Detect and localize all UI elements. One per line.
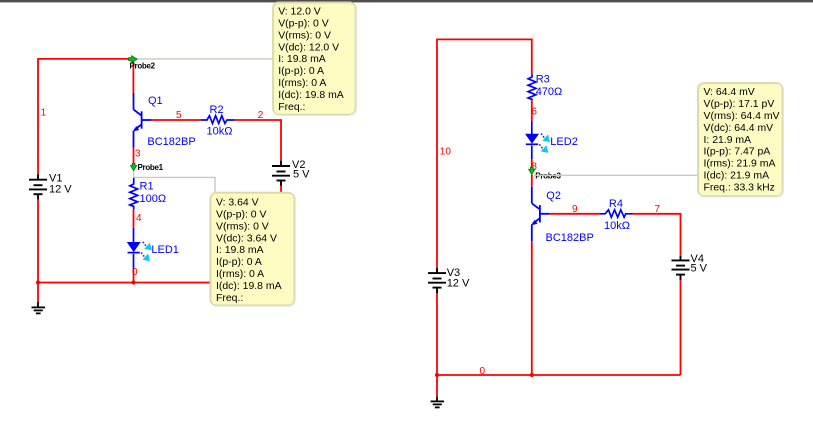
svg-text:12 V: 12 V	[447, 277, 470, 289]
svg-text:V(dc): 3.64 V: V(dc): 3.64 V	[216, 233, 277, 244]
svg-text:V(p-p): 0 V: V(p-p): 0 V	[216, 210, 267, 221]
svg-text:LED2: LED2	[550, 136, 578, 148]
Q1 emitter arrowhead	[133, 126, 139, 132]
svg-text:V: 12.0 V: V: 12.0 V	[278, 7, 321, 18]
LED1 triangle	[128, 242, 140, 251]
svg-text:5 V: 5 V	[293, 168, 310, 180]
svg-text:5: 5	[176, 110, 182, 121]
svg-text:100Ω: 100Ω	[140, 193, 167, 205]
probe Probe3 arrow	[529, 167, 535, 174]
probe Probe2 arrow	[129, 56, 138, 63]
svg-text:I(p-p): 0 A: I(p-p): 0 A	[278, 66, 324, 77]
wire net8 below probe	[531, 175, 533, 187]
svg-text:V(rms): 0 V: V(rms): 0 V	[216, 221, 269, 232]
svg-text:12 V: 12 V	[49, 184, 72, 196]
battery V4	[672, 256, 690, 280]
svg-text:I(rms): 0 A: I(rms): 0 A	[216, 269, 264, 280]
wire net2 to V2	[235, 120, 281, 161]
svg-text:Freq.:: Freq.:	[278, 102, 305, 113]
wire net0 bottom rail right	[437, 374, 681, 376]
svg-text:V(rms): 0 V: V(rms): 0 V	[278, 30, 331, 41]
svg-text:I: 19.8 mA: I: 19.8 mA	[216, 245, 264, 256]
svg-text:I(rms): 0 A: I(rms): 0 A	[278, 78, 326, 89]
svg-text:V: 64.4 mV: V: 64.4 mV	[704, 87, 755, 98]
svg-text:R2: R2	[210, 104, 224, 116]
svg-text:10kΩ: 10kΩ	[604, 220, 630, 232]
wire Q2 emitter to rail	[531, 241, 533, 375]
svg-text:I(rms): 21.9 mA: I(rms): 21.9 mA	[704, 159, 776, 170]
wire net1 left vertical	[37, 58, 39, 174]
Q2 emitter arrowhead	[532, 220, 538, 226]
wire V4 to rail	[680, 280, 682, 375]
svg-text:I(dc): 21.9 mA: I(dc): 21.9 mA	[704, 171, 770, 182]
wire net6 top of R3	[531, 39, 533, 75]
svg-text:V(dc): 64.4 mV: V(dc): 64.4 mV	[704, 123, 774, 134]
wire net5 base	[151, 119, 200, 121]
transistor Q2	[532, 187, 550, 242]
svg-text:7: 7	[655, 204, 661, 215]
svg-text:4: 4	[136, 213, 142, 224]
svg-text:BC182BP: BC182BP	[147, 136, 195, 148]
battery V3	[428, 268, 446, 293]
svg-text:R3: R3	[536, 74, 550, 86]
svg-text:470Ω: 470Ω	[536, 86, 563, 98]
wire ground stub right	[436, 375, 438, 397]
svg-text:Probe1: Probe1	[138, 163, 164, 172]
svg-text:I(dc): 19.8 mA: I(dc): 19.8 mA	[216, 281, 282, 292]
svg-text:I(p-p): 0 A: I(p-p): 0 A	[216, 257, 262, 268]
wire net2 collector drop	[132, 59, 134, 93]
svg-text:Q2: Q2	[546, 190, 561, 202]
svg-text:V(dc): 12.0 V: V(dc): 12.0 V	[278, 42, 339, 53]
junction Q2 emitter/rail	[530, 373, 534, 377]
svg-text:2: 2	[258, 110, 264, 121]
battery V1	[29, 174, 47, 199]
svg-text:I(p-p): 7.47 pA: I(p-p): 7.47 pA	[704, 147, 771, 158]
wire net9	[550, 213, 600, 215]
wire LED1 to rail	[133, 270, 135, 283]
wire net0 bottom rail	[38, 282, 281, 284]
probe Probe1 arrow	[130, 163, 136, 170]
resistor R2	[201, 116, 235, 124]
svg-text:10: 10	[440, 146, 452, 157]
svg-text:Probe2: Probe2	[130, 61, 156, 70]
gray callout line Probe3 to box3	[534, 174, 698, 176]
svg-text:I: 19.8 mA: I: 19.8 mA	[278, 54, 326, 65]
wire V1 to ground rail	[37, 200, 39, 283]
measurement box1 (Probe2)	[273, 2, 357, 115]
transistor Q1	[134, 93, 152, 148]
svg-text:3: 3	[135, 148, 141, 159]
LED2 triangle	[526, 134, 538, 143]
resistor R1	[130, 178, 138, 210]
gray callout line Probe1 to box2	[134, 171, 215, 192]
battery V2	[272, 161, 290, 186]
wire net4	[133, 209, 135, 227]
svg-text:Freq.: 33.3 kHz: Freq.: 33.3 kHz	[704, 182, 775, 193]
top window border	[0, 0, 813, 2]
wire net10 left vertical	[436, 39, 438, 269]
measurement box3 (Probe3)	[698, 83, 784, 197]
resistor R3	[528, 74, 536, 100]
svg-text:I: 21.9 mA: I: 21.9 mA	[704, 135, 752, 146]
svg-text:V(p-p): 17.1 pV: V(p-p): 17.1 pV	[704, 99, 775, 110]
svg-text:R4: R4	[609, 198, 623, 210]
LED2 light arrows	[539, 134, 550, 153]
wire V3 to rail	[436, 293, 438, 375]
svg-text:V: 3.64 V: V: 3.64 V	[216, 198, 259, 209]
junction at V1/ground	[36, 280, 40, 284]
svg-text:Probe3: Probe3	[535, 172, 561, 181]
resistor R4	[600, 210, 633, 218]
wire net7 to V4	[633, 214, 681, 256]
svg-text:I(dc): 19.8 mA: I(dc): 19.8 mA	[278, 90, 344, 101]
wire net3 emitter	[133, 148, 135, 165]
wire net1 top horizontal	[38, 58, 133, 60]
svg-text:10kΩ: 10kΩ	[207, 125, 233, 137]
measurement box2 (Probe1)	[210, 192, 295, 306]
svg-text:0: 0	[480, 366, 486, 377]
svg-text:0: 0	[132, 267, 138, 278]
LED2	[526, 121, 538, 159]
svg-text:V(rms): 64.4 mV: V(rms): 64.4 mV	[704, 111, 780, 122]
svg-text:LED1: LED1	[151, 244, 179, 256]
svg-text:V(p-p): 0 V: V(p-p): 0 V	[278, 19, 329, 30]
svg-text:Q1: Q1	[148, 95, 163, 107]
LED1	[128, 228, 140, 270]
wire V2 down to rail (behind box2)	[280, 186, 282, 283]
gray callout line Probe2 to box1	[137, 58, 273, 60]
wire net10 top horizontal	[437, 38, 532, 40]
wire net6	[531, 100, 533, 121]
svg-text:R1: R1	[140, 181, 154, 193]
ground symbol left	[32, 302, 46, 314]
junction V3/ground rail	[435, 373, 439, 377]
svg-text:9: 9	[572, 204, 578, 215]
wire ground stub	[37, 283, 39, 302]
svg-text:5 V: 5 V	[691, 263, 708, 275]
LED1 light arrows	[141, 242, 152, 261]
wire net8	[531, 159, 533, 167]
svg-text:1: 1	[41, 108, 47, 119]
junction at LED1/rail	[131, 280, 135, 284]
svg-text:6: 6	[531, 107, 537, 118]
ground symbol right	[431, 397, 445, 408]
svg-text:Freq.:: Freq.:	[216, 293, 243, 304]
svg-text:BC182BP: BC182BP	[546, 232, 594, 244]
